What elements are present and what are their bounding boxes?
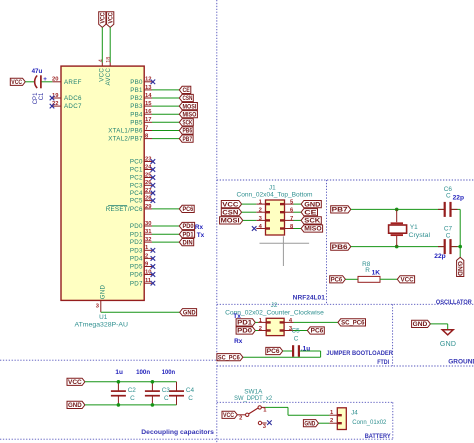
svg-text:Crystal: Crystal: [409, 232, 431, 239]
svg-text:CSN: CSN: [183, 95, 193, 102]
svg-text:C7: C7: [444, 226, 453, 233]
svg-text:J1: J1: [269, 184, 276, 191]
svg-text:PC2: PC2: [130, 175, 143, 182]
svg-text:13: 13: [145, 85, 152, 91]
svg-text:GND: GND: [440, 341, 456, 348]
svg-text:PD0: PD0: [130, 223, 143, 230]
svg-text:VCC: VCC: [11, 79, 22, 86]
svg-text:AREF: AREF: [64, 79, 82, 86]
svg-text:PD4: PD4: [130, 256, 143, 263]
svg-text:PC6: PC6: [267, 348, 280, 355]
svg-text:17: 17: [145, 117, 151, 123]
svg-text:7: 7: [145, 125, 148, 131]
svg-text:AVCC: AVCC: [105, 68, 112, 86]
svg-text:C4: C4: [186, 387, 195, 394]
svg-text:CE: CE: [304, 209, 316, 216]
svg-text:30: 30: [145, 221, 151, 227]
svg-text:J4: J4: [351, 410, 358, 417]
svg-text:2: 2: [239, 415, 242, 421]
svg-text:U1: U1: [99, 314, 108, 321]
svg-text:VCC: VCC: [68, 379, 82, 386]
svg-text:MOSI: MOSI: [183, 103, 197, 110]
svg-text:7: 7: [290, 216, 293, 222]
svg-text:GND: GND: [413, 321, 428, 328]
svg-text:PC6: PC6: [331, 277, 343, 284]
svg-text:DIN: DIN: [183, 239, 194, 246]
svg-text:MISO: MISO: [183, 111, 197, 118]
svg-text:Conn_01x02: Conn_01x02: [352, 419, 387, 426]
svg-text:SW_DPDT_x2: SW_DPDT_x2: [234, 395, 273, 402]
svg-text:20: 20: [52, 77, 58, 83]
svg-text:Decoupling capacitors: Decoupling capacitors: [141, 429, 214, 436]
svg-text:MOSI: MOSI: [221, 218, 240, 225]
svg-text:VCC: VCC: [100, 12, 107, 24]
svg-text:VCC: VCC: [223, 412, 235, 419]
svg-text:GND: GND: [100, 284, 107, 299]
svg-text:PC4: PC4: [130, 190, 143, 197]
svg-text:Conn_02x04_Top_Bottom: Conn_02x04_Top_Bottom: [237, 192, 313, 199]
svg-text:PB2: PB2: [130, 95, 143, 102]
svg-text:PB6: PB6: [332, 244, 349, 251]
svg-text:C: C: [446, 193, 451, 200]
svg-text:+: +: [43, 76, 47, 83]
svg-text:ADC6: ADC6: [64, 95, 82, 102]
svg-text:VCC: VCC: [401, 277, 415, 284]
svg-text:2: 2: [330, 418, 333, 424]
svg-text:2: 2: [145, 253, 148, 259]
svg-text:OSCILLATOR: OSCILLATOR: [436, 299, 472, 306]
svg-text:2: 2: [259, 326, 262, 332]
svg-text:Y1: Y1: [410, 224, 418, 231]
svg-text:GND: GND: [304, 420, 315, 427]
svg-text:100n: 100n: [136, 369, 150, 376]
svg-text:1K: 1K: [372, 270, 381, 277]
svg-text:PD1: PD1: [183, 231, 195, 238]
svg-text:C: C: [164, 395, 169, 402]
svg-text:PB1: PB1: [130, 87, 143, 94]
svg-text:R: R: [365, 267, 370, 274]
svg-text:PC5: PC5: [130, 198, 143, 205]
svg-text:PC6: PC6: [311, 328, 324, 335]
svg-text:C: C: [130, 395, 135, 402]
svg-text:22p: 22p: [434, 253, 445, 260]
svg-text:PD1: PD1: [237, 320, 253, 327]
svg-text:Rx: Rx: [195, 224, 204, 231]
svg-text:PC3: PC3: [130, 182, 143, 189]
svg-text:SCK: SCK: [304, 218, 321, 225]
svg-text:J2: J2: [271, 302, 278, 309]
svg-text:Rx: Rx: [234, 338, 243, 345]
svg-text:SCK: SCK: [183, 120, 193, 127]
svg-text:MISO: MISO: [304, 226, 321, 233]
svg-text:PB3: PB3: [130, 103, 143, 110]
svg-text:14: 14: [145, 93, 152, 99]
svg-text:29: 29: [145, 204, 152, 210]
svg-text:PD0: PD0: [237, 328, 253, 335]
svg-text:PB7: PB7: [183, 136, 193, 143]
svg-text:GND: GND: [183, 309, 196, 316]
svg-text:PD7: PD7: [130, 280, 143, 287]
svg-text:PD0: PD0: [183, 223, 195, 230]
svg-text:PB4: PB4: [130, 111, 143, 118]
svg-text:SC_PC6: SC_PC6: [341, 320, 365, 327]
svg-text:PB7: PB7: [332, 207, 349, 214]
svg-text:16: 16: [145, 109, 152, 115]
svg-text:XTAL1/PB6: XTAL1/PB6: [108, 128, 143, 135]
svg-text:4: 4: [98, 59, 104, 62]
svg-text:FTDI: FTDI: [377, 359, 389, 366]
svg-text:2: 2: [259, 208, 262, 214]
svg-text:47u: 47u: [32, 68, 43, 75]
svg-text:VCC: VCC: [107, 12, 114, 24]
svg-text:PD3: PD3: [130, 247, 143, 254]
svg-text:PD5: PD5: [130, 264, 143, 271]
svg-text:NRF24L01: NRF24L01: [293, 295, 326, 302]
svg-text:1u: 1u: [115, 369, 123, 376]
svg-text:CE: CE: [183, 87, 190, 94]
svg-text:C1: C1: [39, 92, 45, 100]
svg-text:C: C: [188, 395, 193, 402]
svg-text:SC_PC6: SC_PC6: [218, 354, 240, 361]
svg-text:ADC7: ADC7: [64, 103, 82, 110]
svg-text:C: C: [446, 233, 451, 240]
svg-text:GND: GND: [68, 402, 82, 409]
svg-text:GND: GND: [304, 201, 321, 208]
svg-text:GND: GND: [456, 261, 463, 276]
svg-text:PB6: PB6: [183, 128, 193, 135]
svg-text:Tx: Tx: [233, 313, 241, 320]
svg-text:Tx: Tx: [197, 232, 205, 239]
svg-text:C2: C2: [128, 387, 137, 394]
svg-text:32: 32: [145, 237, 151, 243]
svg-text:PD6: PD6: [130, 272, 143, 279]
svg-text:ATmega328P-AU: ATmega328P-AU: [75, 322, 129, 329]
svg-text:22: 22: [52, 101, 58, 107]
svg-text:PC1: PC1: [130, 167, 143, 174]
svg-text:PD1: PD1: [130, 231, 143, 238]
svg-text:PB0: PB0: [130, 79, 143, 86]
svg-text:31: 31: [145, 229, 152, 235]
svg-text:C3: C3: [162, 387, 171, 394]
svg-text:PD2: PD2: [130, 239, 143, 246]
svg-text:PC6: PC6: [183, 206, 194, 213]
svg-text:BATTERY: BATTERY: [365, 433, 391, 440]
svg-text:CSN: CSN: [222, 209, 239, 216]
svg-text:VCC: VCC: [222, 201, 239, 208]
svg-text:18: 18: [106, 57, 112, 63]
svg-text:15: 15: [145, 101, 152, 107]
svg-text:GROUND: GROUND: [448, 359, 474, 366]
svg-text:RESET/PC6: RESET/PC6: [106, 206, 143, 213]
svg-text:C5: C5: [292, 328, 301, 335]
svg-text:C: C: [294, 336, 299, 343]
svg-text:PC0: PC0: [130, 159, 143, 166]
svg-text:22p: 22p: [453, 195, 464, 202]
svg-text:100n: 100n: [162, 369, 175, 376]
svg-text:PB5: PB5: [130, 119, 143, 126]
svg-text:JUMPER BOOTLOADER: JUMPER BOOTLOADER: [326, 350, 393, 357]
svg-text:19: 19: [52, 93, 59, 99]
svg-text:XTAL2/PB7: XTAL2/PB7: [108, 136, 143, 143]
